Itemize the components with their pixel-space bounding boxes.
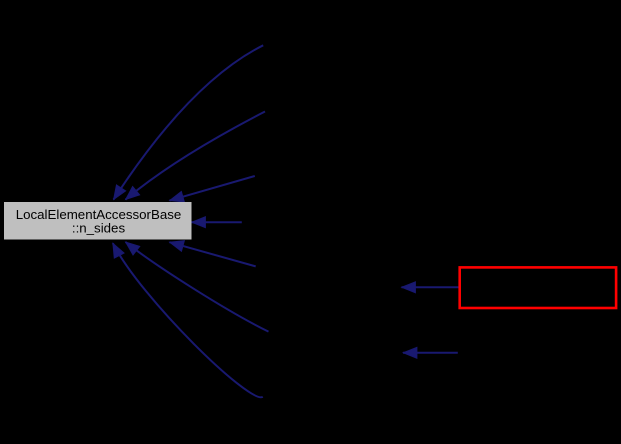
svg-text:::n_sides: ::n_sides: [72, 220, 126, 235]
edge 1: hidden caller 1 -> n_sides: [114, 45, 264, 199]
edge 5: hidden caller 5 -> n_sides: [170, 241, 256, 267]
node LocalElementAccessorBase::n_sides (current node, grey fill): [4, 202, 192, 240]
edge 8: red truncated node -> hidden caller 4: [402, 282, 459, 293]
edge 4: hidden caller 4 -> n_sides: [192, 217, 242, 228]
edge 9: hidden node -> hidden caller 4: [403, 347, 458, 358]
edge 3: hidden caller 3 -> n_sides: [170, 176, 255, 202]
node: truncated caller (red outline, black interior): [460, 267, 616, 308]
edge 6: hidden caller 6 -> n_sides: [126, 242, 269, 332]
edge 7: hidden caller 7 -> n_sides: [113, 243, 263, 397]
edge 2: hidden caller 2 -> n_sides: [126, 112, 266, 200]
